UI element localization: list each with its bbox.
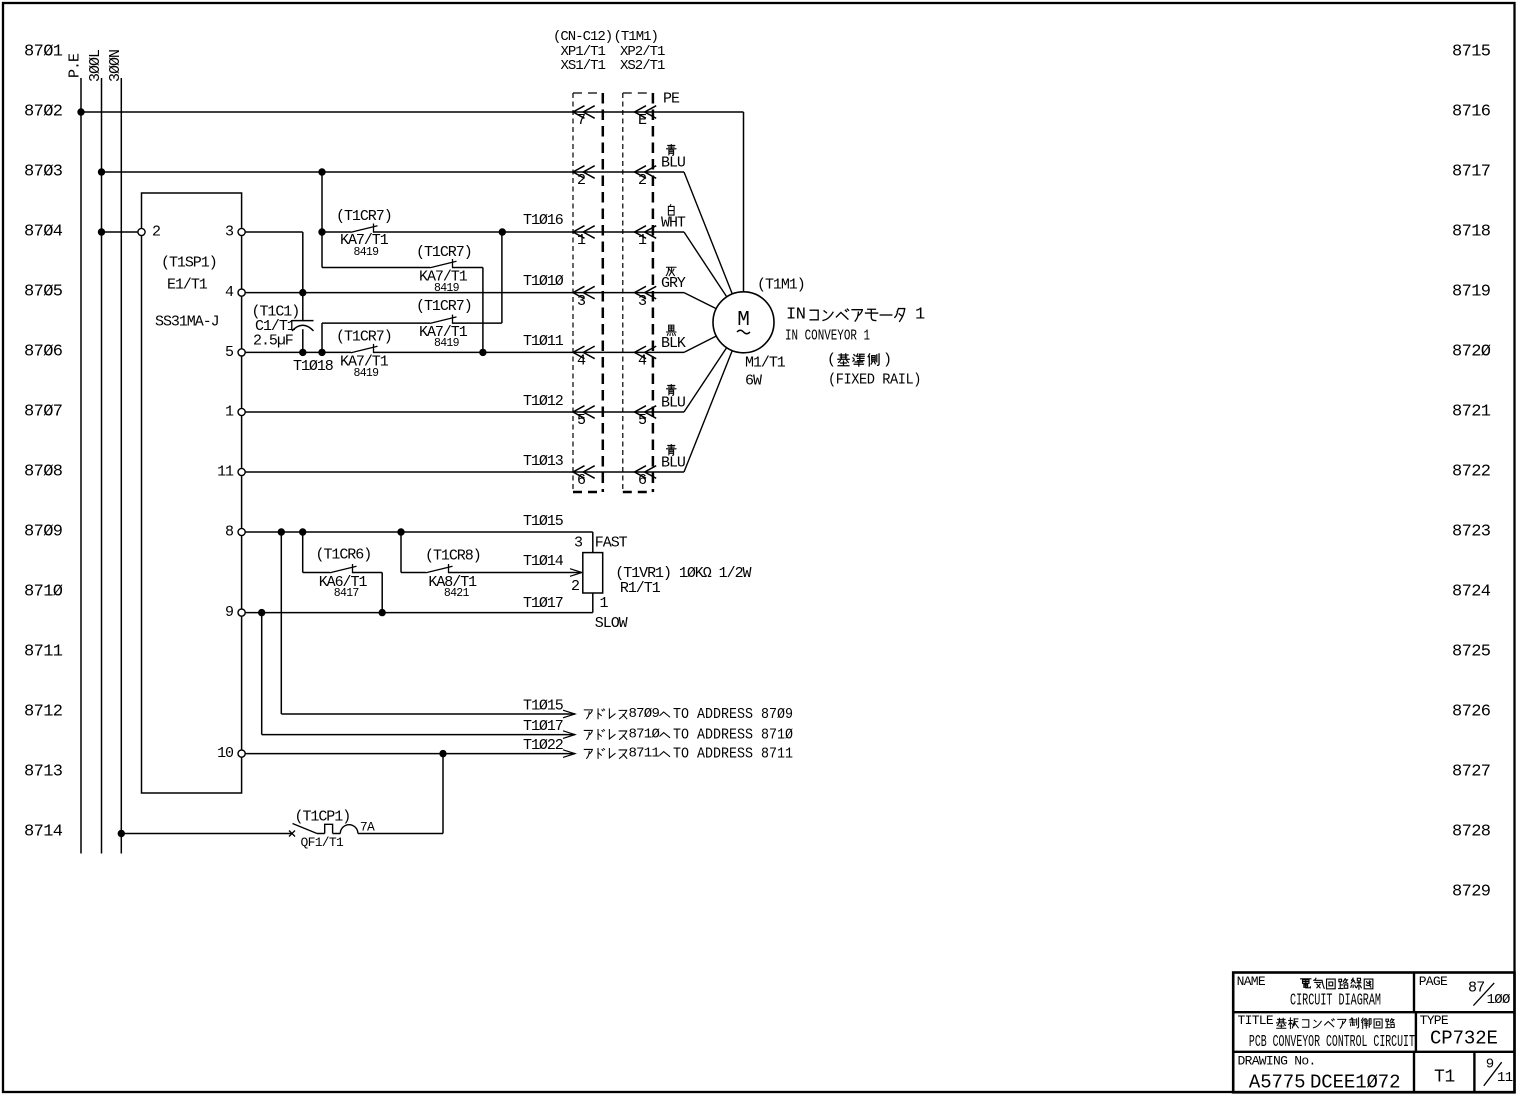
wire 300L row 8703 xyxy=(98,168,684,175)
left address row numbers 8701-8714 xyxy=(24,43,63,842)
wire T1010 row 8705 xyxy=(245,273,684,296)
svg-text:8718: 8718 xyxy=(1452,223,1491,242)
svg-text:8713: 8713 xyxy=(24,763,63,782)
svg-text:(T1CP1): (T1CP1) xyxy=(295,809,351,826)
svg-text:8714: 8714 xyxy=(24,823,63,842)
svg-text:1: 1 xyxy=(225,404,234,421)
svg-text:BLU: BLU xyxy=(661,455,685,472)
svg-text:87Ø3: 87Ø3 xyxy=(24,163,63,182)
svg-text:6W: 6W xyxy=(745,373,762,390)
svg-text:WHT: WHT xyxy=(661,215,686,232)
svg-text:(T1CR7): (T1CR7) xyxy=(336,208,392,225)
svg-text:(T1CR6): (T1CR6) xyxy=(316,547,372,564)
svg-text:PE: PE xyxy=(663,91,680,108)
svg-text:2: 2 xyxy=(577,172,585,189)
svg-text:T1Ø14: T1Ø14 xyxy=(523,553,564,570)
motor labels xyxy=(745,277,805,390)
relay contact KA6/T1 (T1CR6) 8417 xyxy=(303,532,383,613)
connector XP2/T1 XS2/T1 (T1M1) right dashed housing xyxy=(623,93,653,492)
svg-text:BLU: BLU xyxy=(661,395,685,412)
svg-text:8717: 8717 xyxy=(1452,163,1490,182)
svg-text:(T1CR7): (T1CR7) xyxy=(416,244,472,261)
svg-text:1: 1 xyxy=(577,232,586,249)
svg-text:E1/T1: E1/T1 xyxy=(167,277,208,294)
svg-text:QF1/T1: QF1/T1 xyxy=(301,835,345,850)
svg-text:8725: 8725 xyxy=(1452,643,1491,662)
svg-text:8419: 8419 xyxy=(354,246,380,259)
svg-text:87Ø7: 87Ø7 xyxy=(24,403,62,422)
svg-text:8712: 8712 xyxy=(24,703,62,722)
connector pins 2/2 chevron arrows xyxy=(573,166,656,190)
svg-text:8419: 8419 xyxy=(354,367,380,380)
svg-text:SS31MA-J: SS31MA-J xyxy=(155,314,219,331)
svg-text:T1Ø11: T1Ø11 xyxy=(523,333,564,350)
svg-text:CIRCUIT DIAGRAM: CIRCUIT DIAGRAM xyxy=(1290,992,1381,1011)
svg-text:IN CONVEYOR 1: IN CONVEYOR 1 xyxy=(785,328,870,345)
power rail 300L xyxy=(87,49,104,854)
connector XP1/T1 XS1/T1 (CN-C12) left dashed housing xyxy=(573,93,603,492)
svg-text:5: 5 xyxy=(577,412,586,429)
svg-text:2: 2 xyxy=(638,172,646,189)
svg-text:8: 8 xyxy=(225,524,234,541)
pin 11 of U1 xyxy=(217,464,245,481)
svg-text:FAST: FAST xyxy=(595,535,628,552)
wire T1011 label xyxy=(523,333,564,350)
svg-text:(T1M1): (T1M1) xyxy=(614,29,658,45)
svg-text:4: 4 xyxy=(638,353,647,370)
wire colour label BLU xyxy=(661,145,685,172)
svg-text:T1Ø13: T1Ø13 xyxy=(523,453,564,470)
svg-text:871Ø: 871Ø xyxy=(24,583,63,602)
svg-text:NAME: NAME xyxy=(1237,974,1266,989)
svg-text:3ØØN: 3ØØN xyxy=(107,50,124,82)
svg-text:5: 5 xyxy=(225,344,234,361)
svg-text:IN: IN xyxy=(786,306,805,325)
svg-text:87Ø9: 87Ø9 xyxy=(24,523,63,542)
wire T1016 label xyxy=(523,212,564,229)
connector pins 7/E chevron arrows xyxy=(573,106,656,130)
connector pins 3/3 chevron arrows xyxy=(573,286,656,310)
svg-text:3ØØL: 3ØØL xyxy=(87,49,104,82)
svg-text:87Ø1: 87Ø1 xyxy=(24,43,63,62)
svg-text:8711: 8711 xyxy=(629,746,660,762)
svg-text:R1/T1: R1/T1 xyxy=(620,580,661,597)
svg-text:9: 9 xyxy=(225,604,233,621)
svg-text:87: 87 xyxy=(1468,980,1485,997)
title block TYPE cell CP732E xyxy=(1420,1013,1498,1049)
wire colour label WHT xyxy=(661,205,686,232)
relay contact KA7/T1 (T1CR7) 8419 on T1011 (T1018 node) xyxy=(245,329,684,380)
svg-text:DRAWING No.: DRAWING No. xyxy=(1238,1054,1316,1069)
svg-text:8727: 8727 xyxy=(1452,763,1490,782)
svg-text:A5775: A5775 xyxy=(1249,1071,1306,1093)
svg-text:10: 10 xyxy=(217,745,234,762)
svg-text:87Ø4: 87Ø4 xyxy=(24,223,63,242)
svg-text:T1Ø17: T1Ø17 xyxy=(523,718,563,735)
svg-text:2: 2 xyxy=(571,578,579,595)
svg-text:(: ( xyxy=(827,352,835,369)
svg-text:7: 7 xyxy=(577,112,585,129)
svg-text:8715: 8715 xyxy=(1452,43,1491,62)
address 8711 JP+EN text xyxy=(584,746,793,763)
svg-text:P.E: P.E xyxy=(67,53,84,78)
svg-text:(T1CR7): (T1CR7) xyxy=(416,298,472,315)
svg-text:2.5µF: 2.5µF xyxy=(253,333,293,350)
svg-text:CP732E: CP732E xyxy=(1430,1028,1498,1050)
title block frame xyxy=(1233,973,1514,1093)
wire pin2 row 8704 xyxy=(98,228,138,235)
svg-text:(CN-C12): (CN-C12) xyxy=(553,29,612,45)
svg-text:3: 3 xyxy=(574,535,583,552)
relay contact KA8/T1 (T1CR8) 8421 + wire T1014 arrow xyxy=(401,532,582,600)
svg-text:2: 2 xyxy=(152,224,160,241)
wire T1012 row 8707 xyxy=(245,393,684,412)
svg-text:T1Ø15: T1Ø15 xyxy=(523,697,564,714)
wire T1015 row 8709 xyxy=(245,513,593,536)
right address row numbers 8715-8729 xyxy=(1452,43,1491,902)
wire T1013 row 8708 xyxy=(245,453,684,472)
node T1018 label xyxy=(293,358,334,375)
svg-text:T1Ø15: T1Ø15 xyxy=(523,513,564,530)
title block DRAWING No. cell xyxy=(1238,1054,1401,1094)
svg-text:SLOW: SLOW xyxy=(595,615,628,632)
svg-text:8719: 8719 xyxy=(1452,283,1491,302)
pin 4 of U1 xyxy=(225,284,245,301)
svg-text:87Ø8: 87Ø8 xyxy=(24,463,63,482)
fixed rail JP label xyxy=(827,352,891,369)
pin 2 of U1 xyxy=(138,224,160,241)
svg-text:1ØØ: 1ØØ xyxy=(1487,992,1510,1008)
wire PE row 8702 xyxy=(77,108,743,115)
fixed rail EN label xyxy=(828,372,921,389)
svg-text:(FIXED RAIL): (FIXED RAIL) xyxy=(828,372,921,389)
svg-text:11: 11 xyxy=(217,464,234,481)
svg-text:TYPE: TYPE xyxy=(1420,1013,1449,1028)
svg-text:3: 3 xyxy=(638,293,647,310)
svg-text:4: 4 xyxy=(225,284,234,301)
pin 3 of U1 xyxy=(225,224,245,241)
svg-text:8723: 8723 xyxy=(1452,523,1491,542)
wire T1015 to address 8709 xyxy=(281,532,575,718)
svg-text:6: 6 xyxy=(577,472,586,489)
power rail 300N xyxy=(107,50,124,854)
svg-text:TITLE: TITLE xyxy=(1238,1013,1274,1028)
wire colour label GRY xyxy=(661,267,686,292)
wire pin3 to node T1010 xyxy=(245,232,303,293)
svg-text:8726: 8726 xyxy=(1452,703,1491,722)
svg-text:5: 5 xyxy=(638,412,647,429)
svg-text:87Ø9: 87Ø9 xyxy=(629,706,660,722)
motor M1/T1 (T1M1) circle xyxy=(713,292,774,353)
wire T1022 pin10 to address 8711 xyxy=(245,737,575,757)
speed controller U1 (T1SP1) E1/T1 SS31MA-J box xyxy=(142,193,242,793)
svg-text:1: 1 xyxy=(638,232,647,249)
motor name EN xyxy=(785,328,870,345)
connector pins 1/1 chevron arrows xyxy=(573,226,656,250)
pin 9 of U1 xyxy=(225,604,245,621)
svg-text:XS1/T1: XS1/T1 xyxy=(561,58,606,74)
wire colour label BLU xyxy=(661,445,685,472)
svg-text:8729: 8729 xyxy=(1452,883,1491,902)
svg-text:T1Ø22: T1Ø22 xyxy=(523,737,563,754)
svg-text:9: 9 xyxy=(1486,1057,1494,1073)
circuit breaker QF1/T1 (T1CP1) 7A xyxy=(289,809,443,851)
capacitor C1/T1 (T1C1) 2.5uF xyxy=(252,293,314,353)
svg-text:E: E xyxy=(638,112,647,129)
svg-text:87Ø5: 87Ø5 xyxy=(24,283,63,302)
svg-text:6: 6 xyxy=(638,472,647,489)
svg-text:872Ø: 872Ø xyxy=(1452,343,1491,362)
svg-text:8721: 8721 xyxy=(1452,403,1491,422)
wire T1017 to address 8710 xyxy=(262,613,575,739)
connector top labels (CN-C12)(T1M1) XP XS xyxy=(553,29,665,74)
connector pins 4/4 chevron arrows xyxy=(573,346,656,370)
svg-text:BLK: BLK xyxy=(661,335,686,352)
svg-text:TO ADDRESS 87Ø9: TO ADDRESS 87Ø9 xyxy=(673,706,793,723)
svg-text:(T1SP1): (T1SP1) xyxy=(161,255,217,272)
relay contact KA7/T1 (T1CR7) 8419 crossover upper xyxy=(322,244,483,352)
svg-text:PAGE: PAGE xyxy=(1419,974,1448,989)
svg-text:871Ø: 871Ø xyxy=(629,727,660,743)
svg-text:T1Ø1Ø: T1Ø1Ø xyxy=(523,273,564,290)
wire breaker riser to T1022 xyxy=(442,754,444,834)
address 8709 JP+EN text xyxy=(584,706,793,723)
wire T1017 row xyxy=(245,595,593,616)
motor name JP: IN conveyor motor 1 xyxy=(786,306,925,325)
svg-text:3: 3 xyxy=(225,224,234,241)
svg-text:T1Ø17: T1Ø17 xyxy=(523,595,563,612)
wire 8703 branch down to T1016 contact chain xyxy=(318,172,325,268)
relay contact KA7/T1 (T1CR7) 8419 on T1016 xyxy=(322,208,684,259)
relay contact KA7/T1 (T1CR7) 8419 crossover lower xyxy=(322,232,502,352)
svg-text:GRY: GRY xyxy=(661,275,686,292)
svg-text:8716: 8716 xyxy=(1452,103,1491,122)
wire colour label BLU xyxy=(661,385,685,412)
svg-text:PCB CONVEYOR CONTROL CIRCUIT: PCB CONVEYOR CONTROL CIRCUIT xyxy=(1249,1033,1415,1052)
address 8710 JP+EN text xyxy=(584,727,793,744)
svg-text:87Ø2: 87Ø2 xyxy=(24,103,62,122)
wire PE to motor xyxy=(743,112,745,292)
svg-text:4: 4 xyxy=(577,353,586,370)
svg-text:BLU: BLU xyxy=(661,155,685,172)
wire 300N to breaker row 8714 xyxy=(118,830,292,837)
title block TITLE cell xyxy=(1238,1013,1415,1052)
potentiometer R1/T1 (T1VR1) 10K 1/2W xyxy=(571,532,752,632)
wire colour label BLK xyxy=(661,325,686,352)
svg-text:3: 3 xyxy=(577,293,586,310)
svg-text:): ) xyxy=(883,352,891,369)
title block 9/11 cell xyxy=(1484,1057,1513,1087)
svg-text:1: 1 xyxy=(915,306,925,325)
connector pins 6/6 chevron arrows xyxy=(573,466,656,490)
pin 5 of U1 xyxy=(225,344,245,361)
svg-text:T1Ø18: T1Ø18 xyxy=(293,358,334,375)
svg-text:8421: 8421 xyxy=(444,587,470,600)
power rail P.E xyxy=(67,53,84,854)
svg-text:8728: 8728 xyxy=(1452,823,1491,842)
svg-text:11: 11 xyxy=(1497,1070,1513,1086)
svg-text:7A: 7A xyxy=(360,820,375,835)
svg-text:T1Ø12: T1Ø12 xyxy=(523,393,563,410)
pin 10 of U1 xyxy=(217,745,245,762)
svg-text:(T1CR7): (T1CR7) xyxy=(336,329,392,346)
motor feed diagonal wires xyxy=(684,172,744,472)
svg-text:TO ADDRESS 8711: TO ADDRESS 8711 xyxy=(673,746,793,763)
pin 1 of U1 xyxy=(225,404,245,421)
wire label PE xyxy=(663,91,680,108)
pin 8 of U1 xyxy=(225,524,245,541)
title block NAME cell xyxy=(1237,974,1381,1011)
svg-text:XS2/T1: XS2/T1 xyxy=(620,58,665,74)
svg-text:8417: 8417 xyxy=(334,587,359,600)
svg-text:(T1M1): (T1M1) xyxy=(757,277,805,294)
svg-text:87Ø6: 87Ø6 xyxy=(24,343,63,362)
svg-text:1: 1 xyxy=(600,595,609,612)
svg-text:(T1CR8): (T1CR8) xyxy=(425,547,481,564)
svg-text:8711: 8711 xyxy=(24,643,63,662)
svg-text:TO ADDRESS 871Ø: TO ADDRESS 871Ø xyxy=(673,727,793,744)
title block sheet T1 cell xyxy=(1434,1067,1455,1087)
svg-text:8419: 8419 xyxy=(434,337,460,350)
title block PAGE cell 87/100 xyxy=(1419,974,1510,1008)
svg-text:T1Ø16: T1Ø16 xyxy=(523,212,564,229)
connector pins 5/5 chevron arrows xyxy=(573,406,656,430)
svg-text:DCEE1Ø72: DCEE1Ø72 xyxy=(1310,1071,1400,1093)
svg-text:M1/T1: M1/T1 xyxy=(745,355,786,372)
svg-text:8724: 8724 xyxy=(1452,583,1491,602)
svg-text:8722: 8722 xyxy=(1452,463,1490,482)
svg-text:T1: T1 xyxy=(1434,1067,1455,1087)
svg-text:M: M xyxy=(737,309,750,332)
